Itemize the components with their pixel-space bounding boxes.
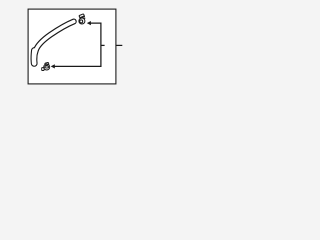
hose tail inner white — [32, 51, 37, 64]
clamp C1 (top) screw head — [79, 14, 85, 24]
hose tail dark (wider) — [31, 51, 38, 64]
callout bracket line — [54, 23, 101, 66]
diagram viewport box — [28, 9, 116, 84]
arrowhead to bottom clamp — [51, 64, 55, 68]
hose inner white — [34, 22, 74, 59]
bracket tick stub — [101, 44, 105, 46]
band ring — [44, 64, 50, 70]
background — [0, 0, 150, 94]
leader tick outside box — [116, 44, 123, 46]
clamp C1 (top) band ring — [79, 18, 85, 24]
screw nub — [45, 62, 49, 65]
arrowhead to top clamp — [87, 21, 91, 25]
hose (curved tube) dark outline — [34, 22, 74, 59]
clamp C2 (bottom) — [42, 62, 50, 70]
side tab — [42, 68, 44, 71]
